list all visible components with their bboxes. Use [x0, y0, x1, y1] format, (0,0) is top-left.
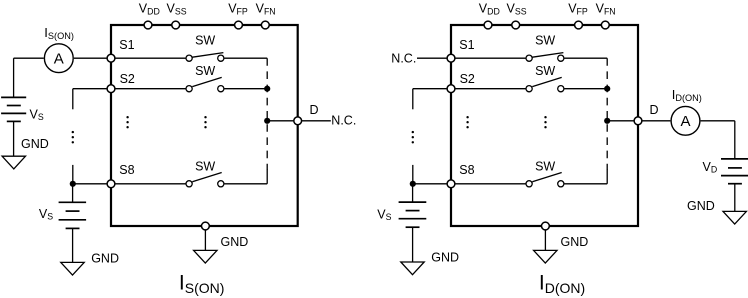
ground (battery VS bottom-left): [61, 262, 84, 275]
svg-text:IS(ON): IS(ON): [179, 272, 225, 296]
svg-text:S2: S2: [120, 72, 135, 86]
switch SW row S1: [186, 53, 224, 62]
pin S1: [447, 54, 455, 62]
svg-text:VFN: VFN: [256, 2, 276, 17]
battery VS right-circuit: [399, 202, 427, 227]
pin GND: [542, 222, 550, 230]
node junction S2/bus: [604, 86, 610, 92]
pin VSS: [512, 21, 520, 29]
svg-text:SW: SW: [535, 34, 555, 48]
battery VD: [721, 159, 748, 184]
pin VFN: [601, 21, 609, 29]
svg-text:GND: GND: [21, 137, 49, 151]
dashed bus wire: [266, 58, 268, 170]
wire: [74, 57, 107, 59]
ellipsis dots inside box column 2: [544, 116, 546, 128]
pin D: [294, 117, 302, 125]
svg-text:N.C.: N.C.: [391, 51, 416, 65]
svg-text:GND: GND: [431, 251, 459, 265]
wire: [224, 88, 267, 90]
mux box U2: [451, 25, 638, 226]
svg-text:SW: SW: [195, 34, 215, 48]
wire: [72, 184, 74, 203]
wire N.C. to S1: [417, 57, 447, 59]
wire: [412, 184, 414, 202]
wire: [115, 183, 185, 185]
ammeter A (ID(ON)): [671, 106, 700, 135]
wire: [642, 120, 670, 122]
pin VFP: [235, 21, 243, 29]
battery VS top-left: [1, 97, 26, 121]
node junction S8/VS: [410, 181, 416, 187]
wire: [115, 88, 185, 90]
svg-text:SW: SW: [535, 64, 555, 78]
wire: [412, 227, 414, 262]
svg-text:VSS: VSS: [507, 2, 527, 17]
pin D: [634, 117, 642, 125]
wire: [734, 184, 736, 212]
pin GND: [202, 222, 210, 230]
ellipsis dots inside box column 1: [126, 116, 128, 128]
svg-text:VFN: VFN: [596, 2, 616, 17]
wire: [607, 120, 634, 122]
wire: [302, 120, 331, 122]
svg-text:GND: GND: [687, 199, 715, 213]
svg-text:VSS: VSS: [167, 2, 187, 17]
pin VFN: [261, 21, 269, 29]
pin VFP: [575, 21, 583, 29]
node junction D/bus: [604, 118, 610, 124]
wire: [266, 170, 268, 184]
wire: [115, 57, 185, 59]
svg-text:GND: GND: [221, 235, 249, 249]
svg-text:ID(ON): ID(ON): [672, 87, 702, 103]
wire: [564, 183, 607, 185]
switch SW row S2: [526, 77, 564, 91]
svg-text:GND: GND: [91, 251, 119, 265]
switch SW row S2: [186, 77, 224, 91]
wire: [544, 230, 546, 250]
wire: [606, 170, 608, 184]
switch SW row S8: [526, 173, 564, 187]
battery VS bottom-left: [59, 202, 87, 228]
wire: [73, 183, 107, 185]
ellipsis dots left column: [72, 131, 74, 144]
node junction D/bus: [264, 118, 270, 124]
ellipsis dots left column: [412, 131, 414, 144]
svg-text:S8: S8: [459, 163, 474, 177]
switch SW row S1: [526, 53, 564, 62]
svg-text:A: A: [54, 50, 64, 67]
wire: [72, 228, 74, 262]
wire: [734, 121, 736, 159]
svg-text:D: D: [650, 103, 659, 117]
svg-text:VS: VS: [377, 208, 391, 223]
svg-text:VDD: VDD: [139, 2, 160, 17]
svg-text:VS: VS: [39, 207, 53, 222]
pin S8: [447, 180, 455, 188]
wire: [13, 121, 15, 156]
svg-text:S8: S8: [119, 163, 134, 177]
svg-text:VFP: VFP: [228, 2, 248, 17]
svg-text:VDD: VDD: [479, 2, 500, 17]
pin S1: [107, 54, 115, 62]
pin VSS: [172, 21, 180, 29]
mux box U1: [111, 25, 298, 226]
switch SW row S8: [186, 173, 224, 187]
wire: [413, 183, 447, 185]
svg-text:S1: S1: [459, 38, 474, 52]
wire S2 stub left: [413, 88, 447, 90]
wire: [72, 89, 74, 110]
svg-text:ID(ON): ID(ON): [539, 272, 585, 296]
pin S8: [107, 180, 115, 188]
pin S2: [107, 85, 115, 93]
svg-text:GND: GND: [561, 235, 589, 249]
ammeter A (IS(ON)): [44, 44, 73, 73]
ground (battery VS top-left): [2, 156, 25, 169]
wire: [13, 58, 15, 97]
wire: [701, 120, 735, 122]
pin S2: [447, 85, 455, 93]
LEFT-CIRCUIT: [1, 21, 331, 275]
svg-text:VD: VD: [703, 160, 718, 175]
RIGHT-CIRCUIT: [399, 21, 748, 275]
ground (box GND): [194, 250, 217, 263]
wire: [455, 88, 525, 90]
svg-text:VS: VS: [30, 107, 44, 122]
svg-text:A: A: [680, 113, 690, 130]
svg-text:VFP: VFP: [568, 2, 588, 17]
wire: [564, 57, 607, 59]
wire: [72, 165, 74, 184]
svg-text:SW: SW: [535, 159, 555, 173]
wire S2 stub left: [73, 88, 107, 90]
wire: [412, 165, 414, 184]
wire: [204, 230, 206, 250]
wire: [224, 183, 267, 185]
wire: [267, 120, 293, 122]
ground (battery VD): [723, 211, 746, 224]
wire: [455, 57, 525, 59]
svg-text:SW: SW: [195, 64, 215, 78]
wire: [412, 89, 414, 110]
svg-text:IS(ON): IS(ON): [44, 25, 74, 41]
wire: [224, 57, 267, 59]
svg-text:S1: S1: [119, 38, 134, 52]
pin VDD: [144, 21, 152, 29]
svg-text:N.C.: N.C.: [331, 113, 356, 127]
wire: [564, 88, 607, 90]
svg-text:SW: SW: [195, 159, 215, 173]
wire: [455, 183, 525, 185]
ellipsis dots inside box column 1: [466, 116, 468, 128]
node junction S2/bus: [264, 86, 270, 92]
wire: [14, 57, 44, 59]
pin VDD: [484, 21, 492, 29]
ground (battery VS right): [401, 262, 424, 275]
svg-text:D: D: [310, 103, 319, 117]
node junction S8/VS: [70, 181, 76, 187]
svg-text:S2: S2: [460, 72, 475, 86]
dashed bus wire: [606, 58, 608, 170]
ground (box GND right): [534, 250, 557, 263]
ellipsis dots inside box column 2: [204, 116, 206, 128]
